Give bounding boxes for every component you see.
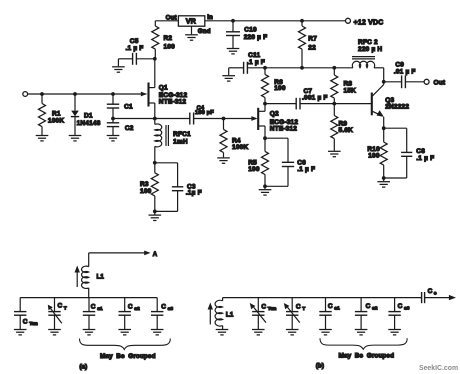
svg-text:C: C [428, 288, 433, 295]
svg-text:Tun: Tun [29, 321, 38, 327]
svg-text:(b): (b) [316, 363, 324, 370]
resistor R5 100 [248, 138, 268, 186]
svg-text:May Be Grouped: May Be Grouped [339, 353, 395, 360]
svg-text:C: C [161, 303, 166, 310]
node Q2 source [263, 136, 267, 140]
svg-text:RFC1: RFC1 [173, 131, 191, 138]
svg-text:C: C [261, 304, 266, 311]
svg-text:100: 100 [368, 153, 380, 160]
svg-text:a2: a2 [372, 306, 378, 312]
brace may be grouped (b) [320, 338, 407, 359]
svg-text:L1: L1 [97, 274, 105, 281]
inductor RFC2 220uH [352, 39, 382, 68]
capacitor C2 [107, 119, 134, 136]
node R8 bottom / R9 top [332, 102, 336, 106]
output terminal [424, 79, 446, 86]
svg-text:SeekIC.com: SeekIC.com [419, 365, 458, 372]
ground R4 [217, 158, 230, 163]
svg-text:C: C [328, 303, 333, 310]
capacitor C7 .001uF [265, 88, 371, 109]
svg-text:a1: a1 [97, 306, 103, 312]
svg-text:C: C [366, 303, 371, 310]
capacitor CTun (a) [14, 298, 38, 329]
capacitor CT variable (b) [284, 298, 306, 329]
svg-text:C1: C1 [124, 104, 133, 111]
svg-text:T: T [64, 305, 67, 311]
svg-text:+12 VDC: +12 VDC [354, 19, 384, 26]
svg-text:100: 100 [248, 166, 260, 173]
node D1 top [73, 92, 77, 96]
ground R5 [259, 186, 272, 195]
ground R9 [328, 151, 341, 156]
svg-text:.1 µ F: .1 µ F [126, 45, 144, 52]
capacitor Ca2 (a) [119, 298, 141, 329]
ground R1 [36, 136, 49, 141]
svg-text:D1: D1 [84, 113, 93, 120]
wire bus (b) [223, 297, 422, 299]
capacitor C1 [107, 94, 133, 119]
node R4 top [222, 117, 226, 121]
node Q3 collector / C9 [382, 80, 386, 84]
svg-text:C8: C8 [416, 148, 425, 155]
svg-text:T: T [302, 306, 305, 312]
svg-text:100K: 100K [48, 118, 64, 125]
svg-text:C: C [58, 302, 63, 309]
node R8 top [332, 66, 336, 70]
svg-text:100: 100 [274, 85, 286, 92]
wire bus (a) [20, 297, 157, 299]
ground C11 [222, 68, 235, 81]
node Q1 drain / R2 / C5 [153, 57, 157, 61]
capacitor C8 .1uF [384, 128, 435, 178]
svg-text:220 µ F: 220 µ F [244, 34, 268, 41]
svg-text:R3: R3 [140, 181, 149, 188]
arrow of variable L1 (b) [208, 303, 213, 325]
ground Ca1 (b) [319, 330, 332, 335]
svg-text:100 pF: 100 pF [195, 110, 214, 116]
input terminal [23, 92, 28, 97]
capacitor Ca1 (b) [319, 298, 340, 329]
wire bias line y68 [265, 67, 353, 69]
inductor RFC1 1mH [155, 119, 191, 163]
transistor Q2 JFET ECG-312 NTE-312 [251, 104, 298, 139]
capacitor C6 .1uF [265, 138, 315, 186]
capacitor Ca3 (a) [151, 298, 173, 329]
node C1 top [111, 92, 115, 96]
capacitor C9 .01uF [384, 61, 424, 88]
capacitor CT variable (a) [48, 298, 67, 329]
wire +12 rail [205, 20, 346, 22]
resistor R9 5.6K [331, 104, 353, 151]
svg-text:R2: R2 [164, 35, 173, 42]
svg-text:a1: a1 [334, 306, 340, 312]
svg-text:Q1: Q1 [159, 84, 168, 91]
+12 VDC terminal [346, 18, 384, 26]
node R5 bottom [263, 184, 267, 188]
capacitor CTun variable (b) [250, 298, 277, 329]
svg-text:L1: L1 [226, 312, 234, 319]
svg-text:a3: a3 [168, 306, 174, 312]
ground Ca1 (a) [83, 330, 96, 335]
capacitor Ca2 (b) [355, 298, 378, 329]
capacitor C4 100pF [190, 105, 257, 124]
capacitor Ca3 (b) [388, 298, 409, 329]
capacitor C10 220uF [226, 21, 267, 48]
svg-text:.1µ F: .1µ F [186, 189, 202, 196]
svg-text:1N4148: 1N4148 [77, 120, 101, 127]
resistor R8 15K [331, 68, 356, 104]
svg-text:.01 µ F: .01 µ F [394, 68, 416, 75]
ground C10 [227, 49, 240, 54]
resistor R2 100 [152, 21, 179, 59]
ground VR [185, 35, 198, 40]
node R1 top [40, 92, 44, 96]
ground C2 [107, 136, 120, 141]
svg-text:In: In [207, 14, 213, 21]
svg-text:C: C [398, 303, 403, 310]
resistor R7 22 [299, 21, 318, 68]
svg-text:C: C [23, 318, 28, 325]
ground CT (a) [48, 330, 61, 335]
ground Ca2 (b) [355, 330, 368, 335]
svg-text:R1: R1 [52, 110, 61, 117]
wire RFC2 to Q3 collector [374, 68, 384, 85]
resistor R4 100K [220, 119, 248, 158]
svg-text:A: A [153, 252, 158, 258]
diode D1 1N4148 [71, 94, 101, 135]
ground Ca3 (b) [388, 330, 401, 335]
capacitor CC coupling (b) [422, 288, 437, 303]
arrow of variable L1 (a) [75, 266, 80, 288]
ground D1 [69, 136, 82, 141]
svg-text:5.6K: 5.6K [339, 127, 354, 134]
ground L1 (b) [216, 330, 229, 335]
svg-text:VR: VR [186, 17, 197, 26]
resistor R3 100 [140, 163, 158, 212]
inductor L1 (a) [82, 253, 105, 298]
svg-text:C10: C10 [244, 26, 257, 33]
capacitor C11 .1uF [229, 52, 265, 74]
node R7 bottom [300, 66, 304, 70]
ground R10 [377, 178, 390, 187]
ground CT (b) [286, 330, 299, 335]
node C1 C2 junction [111, 117, 115, 121]
svg-text:a2: a2 [134, 306, 140, 312]
svg-text:.1 µ F: .1 µ F [247, 59, 265, 66]
svg-text:(a): (a) [79, 363, 87, 370]
ground CTun (b) [252, 330, 265, 335]
svg-text:C: C [91, 303, 96, 310]
svg-text:2N2222: 2N2222 [385, 104, 409, 111]
brace may be grouped (a) [80, 339, 171, 361]
capacitor Ca1 (a) [83, 298, 103, 329]
ground R3 [149, 211, 162, 220]
svg-text:a3: a3 [404, 306, 410, 312]
ground Ca3 (a) [151, 330, 164, 335]
transistor Q1 JFET ECG-312 NTE-312 [141, 59, 188, 119]
capacitor C3 .1uF [155, 163, 202, 212]
svg-text:C2: C2 [125, 125, 134, 132]
svg-text:C: C [296, 304, 301, 311]
node R10 bottom [382, 176, 386, 180]
ground Ca2 (a) [118, 330, 131, 335]
svg-text:NTE-312: NTE-312 [270, 126, 298, 133]
resistor R1 100K [39, 94, 65, 135]
wire C1C2 junction to C4 [113, 118, 190, 120]
wire arrow to A [89, 251, 158, 258]
ground C5 [112, 59, 125, 72]
resistor R10 100 [367, 128, 387, 178]
svg-text:100K: 100K [232, 144, 248, 151]
svg-text:May Be Grouped: May Be Grouped [100, 353, 156, 360]
ground CTun (a) [14, 330, 27, 335]
svg-text:R8: R8 [344, 81, 353, 88]
node RFC1 bottom [153, 161, 157, 165]
svg-text:.001 µ F: .001 µ F [302, 94, 328, 101]
node Q1 source line [153, 117, 157, 121]
node R6 bottom / Q2 drain [263, 102, 267, 106]
svg-text:Q2: Q2 [270, 111, 279, 118]
node R6 top [263, 66, 267, 70]
transistor Q3 2N2222 [372, 85, 410, 129]
capacitor C5 .1uF [118, 38, 154, 65]
svg-text:Out: Out [434, 80, 446, 87]
node R3 bottom [153, 210, 157, 214]
node R7 top [300, 19, 304, 23]
svg-text:Tun: Tun [268, 306, 277, 312]
node C10 top [231, 19, 235, 23]
inductor L1 (b) [215, 298, 234, 329]
wire input line to Q1 gate [28, 93, 147, 95]
svg-text:220 µ H: 220 µ H [358, 46, 382, 53]
svg-text:15K: 15K [344, 88, 357, 95]
svg-text:.1 µ F: .1 µ F [416, 155, 434, 162]
svg-text:Gnd: Gnd [198, 28, 211, 35]
resistor R6 100 [262, 68, 286, 104]
svg-text:100: 100 [164, 43, 176, 50]
svg-text:R7: R7 [308, 36, 317, 43]
svg-text:100: 100 [140, 188, 152, 195]
node Q3 emitter [382, 126, 386, 130]
svg-text:1mH: 1mH [173, 139, 188, 146]
svg-text:Out: Out [166, 15, 177, 22]
svg-text:.1 µ F: .1 µ F [297, 166, 315, 173]
svg-text:C: C [128, 303, 133, 310]
svg-text:22: 22 [308, 45, 316, 52]
voltage regulator VR [166, 14, 213, 35]
svg-text:NTE-312: NTE-312 [159, 98, 187, 105]
svg-text:c: c [434, 292, 437, 297]
wire output arrow (b) [425, 295, 456, 300]
